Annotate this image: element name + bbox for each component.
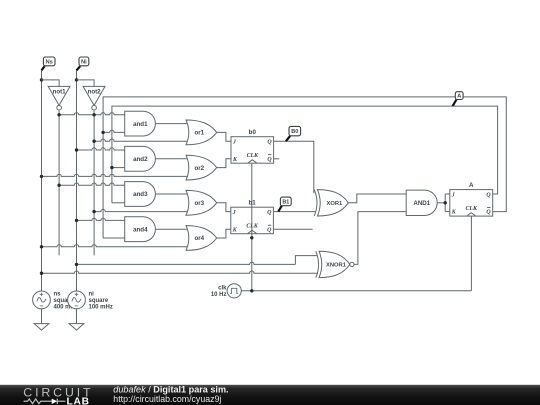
- svg-text:not1: not1: [53, 89, 67, 96]
- svg-text:and2: and2: [133, 156, 148, 163]
- junction Ni-bar or3: [92, 210, 95, 213]
- svg-text:or1: or1: [194, 130, 204, 137]
- clock source clk 10Hz: [211, 284, 241, 299]
- wire b0 Qbar stub: [274, 158, 280, 160]
- svg-text:and4: and4: [133, 226, 148, 233]
- junction not1-out row: [57, 113, 60, 116]
- svg-text:CLK: CLK: [247, 153, 260, 159]
- logo CIRCUIT LAB: [23, 386, 93, 405]
- junction Ni and4: [75, 219, 78, 222]
- node label Ni: [77, 57, 89, 70]
- svg-text:or2: or2: [194, 165, 204, 172]
- and gate and3: [125, 182, 156, 207]
- svg-text:CLK: CLK: [246, 224, 259, 230]
- wire and3 to or3: [155, 193, 189, 195]
- junction Ni xnor: [75, 263, 78, 266]
- or gate or3: [186, 190, 217, 215]
- svg-text:ns: ns: [54, 292, 62, 298]
- svg-text:AND1: AND1: [413, 200, 430, 207]
- svg-text:10 Hz: 10 Hz: [211, 292, 227, 298]
- wire or2 to b0 K: [217, 159, 231, 168]
- wire row and4 bottom input (A-bar): [103, 237, 125, 239]
- wire xnor1 output to AND1: [354, 212, 406, 265]
- footer bar: [0, 385, 540, 405]
- junction Ns or2: [40, 175, 43, 178]
- wire clock vertical b0/b1: [251, 164, 253, 291]
- wire Ns to not1 input: [42, 80, 60, 87]
- svg-text:not2: not2: [88, 89, 102, 96]
- wire Ns vertical: [41, 70, 43, 291]
- junction Ns xnor: [40, 272, 43, 275]
- wire or3 to b1 J: [217, 203, 231, 212]
- junction AND1 output: [444, 201, 447, 204]
- svg-text:100 mHz: 100 mHz: [89, 304, 113, 310]
- wire and1 to or1: [155, 123, 189, 125]
- wire b1 Q to xor (net B1): [273, 211, 315, 213]
- svg-text:and3: and3: [133, 191, 148, 198]
- xnor gate XNOR1: [316, 251, 354, 277]
- svg-text:http://circuitlab.com/cyuaz9j: http://circuitlab.com/cyuaz9j: [113, 394, 221, 404]
- wire b0 Q to xor (net B0): [274, 141, 314, 193]
- svg-text:ni: ni: [89, 292, 95, 298]
- wire row and4 top input (Ni): [77, 218, 125, 220]
- node label Ns: [42, 57, 56, 70]
- node label B0: [286, 126, 301, 141]
- svg-text:Q: Q: [267, 157, 272, 163]
- and gate and4: [125, 217, 156, 242]
- ground ns: [34, 324, 49, 331]
- svg-text:Q: Q: [486, 192, 491, 198]
- svg-text:A: A: [469, 182, 474, 189]
- junction Ns-bar and3: [57, 184, 60, 187]
- or gate or2: [186, 155, 217, 180]
- wire and2 to or2: [155, 158, 189, 160]
- wire row or1 bottom input (Ni-bar): [94, 139, 189, 141]
- junction Ni/not2: [75, 78, 78, 81]
- wire row xnor bottom input (Ns): [42, 271, 319, 273]
- wire row and1 top input: [59, 113, 125, 115]
- wire ni to ground: [76, 309, 78, 324]
- wire xor1 output to AND1: [348, 194, 406, 203]
- svg-text:clk: clk: [218, 285, 227, 291]
- wire row xnor top input (Ni): [77, 262, 296, 264]
- svg-text:Q: Q: [267, 210, 272, 216]
- source ni square 100mHz: [68, 291, 86, 309]
- svg-text:and1: and1: [133, 121, 148, 128]
- flip-flop b1: [231, 207, 274, 234]
- svg-text:B1: B1: [282, 200, 289, 206]
- svg-text:Q: Q: [267, 227, 272, 233]
- or gate or4: [186, 226, 217, 251]
- wire row or4 bottom input (Ns): [42, 245, 190, 247]
- wire net A top feedback: [112, 106, 498, 203]
- junction Ni and2: [75, 148, 78, 151]
- node label B1: [278, 197, 291, 212]
- and gate and2: [125, 146, 156, 171]
- wire row and3 top input (Ns-bar): [59, 183, 125, 185]
- svg-text:Ns: Ns: [45, 60, 52, 66]
- wire AND1 output fork: [437, 202, 445, 204]
- flip-flop b0: [231, 137, 274, 164]
- svg-text:B0: B0: [291, 129, 298, 135]
- ground ni: [69, 324, 84, 331]
- svg-text:Ni: Ni: [81, 60, 87, 66]
- wire and4 to or4: [155, 228, 189, 230]
- wire row and1 bottom input (A-bar): [103, 130, 125, 132]
- junction clk: [250, 289, 253, 292]
- junction b1 clk: [250, 236, 253, 239]
- or gate or1: [186, 120, 217, 145]
- svg-text:Q: Q: [267, 139, 272, 145]
- junction A and2: [110, 166, 113, 169]
- wire not2 output vertical: [93, 111, 95, 256]
- xor gate XOR1: [314, 190, 348, 216]
- source ns square 400mHz: [33, 291, 51, 309]
- wire row and2 top input (Ni): [77, 148, 125, 150]
- wire row and3 bottom input (A): [112, 202, 125, 204]
- junction Ns/not1: [40, 78, 43, 81]
- wire row or3 bottom input (Ni-bar): [94, 209, 189, 211]
- svg-text:or4: or4: [194, 235, 204, 242]
- footer caption: [113, 385, 228, 404]
- svg-text:square: square: [89, 298, 109, 304]
- svg-text:CLK: CLK: [465, 206, 478, 212]
- svg-text:or3: or3: [194, 200, 204, 207]
- svg-text:XNOR1: XNOR1: [326, 263, 347, 269]
- wire net A-bar top feedback: [103, 97, 506, 238]
- svg-text:Q: Q: [486, 210, 491, 216]
- wire or4 to b1 K: [217, 229, 231, 238]
- and gate AND1: [406, 190, 437, 215]
- junction not2-out row: [92, 113, 95, 116]
- wire or1 to b0 J: [217, 132, 231, 141]
- flip-flop A: [450, 190, 493, 217]
- junction Ns or4: [40, 245, 43, 248]
- junction Ni-bar or1: [92, 140, 95, 143]
- node label A: [453, 92, 463, 106]
- wire ns to ground: [41, 309, 43, 324]
- junction A-bar and1: [101, 131, 104, 134]
- wire Ni to not2 input: [77, 80, 95, 87]
- wire not1 output vertical: [58, 111, 60, 256]
- wire clock to flip-flop A: [241, 290, 471, 292]
- wire row and2 bottom input (A): [112, 167, 125, 169]
- svg-text:LAB: LAB: [67, 396, 90, 405]
- svg-text:b1: b1: [248, 200, 256, 207]
- and gate and1: [125, 111, 156, 136]
- inverter not2: [83, 86, 105, 110]
- svg-text:XOR1: XOR1: [327, 201, 344, 207]
- svg-text:b0: b0: [249, 129, 257, 136]
- wire row or2 bottom input (Ns): [42, 174, 190, 176]
- wire b1 Qbar stub: [273, 228, 312, 230]
- inverter not1: [48, 86, 70, 110]
- wire Ni vertical: [76, 70, 78, 291]
